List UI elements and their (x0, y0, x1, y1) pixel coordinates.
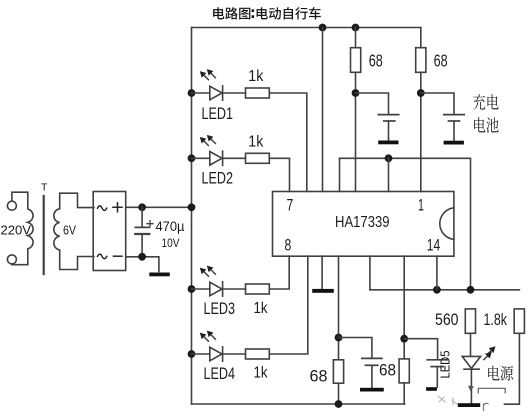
svg-text:LED1: LED1 (202, 105, 234, 123)
node top rail R5 (352, 24, 360, 32)
resistor R9 560 box (465, 309, 475, 333)
node bus LED3 (188, 285, 196, 293)
node mid rail pin2 (385, 154, 393, 162)
resistor R4 1k box (246, 349, 270, 359)
wire top supply rail (192, 27, 421, 29)
wire pin4 (339, 158, 341, 191)
LED3 diode (192, 288, 210, 290)
wire pin12 to ground (321, 256, 323, 289)
battery B plate long (444, 114, 464, 116)
watermark scribble (438, 396, 457, 405)
battery B wire (421, 93, 454, 114)
wire R3 to pin8 (269, 256, 289, 289)
battery A plate short (384, 120, 395, 122)
capacitor C1 470u lead top (141, 207, 143, 226)
wire reference mid rail (340, 158, 471, 289)
transformer core (43, 196, 45, 274)
label 电源 (488, 366, 513, 381)
LED1 diode (192, 92, 210, 94)
LED3 arrows (204, 269, 216, 276)
svg-text:1k: 1k (248, 134, 264, 151)
capacitor C3 wire (404, 339, 437, 359)
node bridge - / cap junction (138, 253, 146, 261)
svg-text:560: 560 (435, 310, 459, 329)
svg-text:1: 1 (418, 197, 424, 215)
resistor R2 1k box (246, 153, 270, 163)
capacitor C2 lead (371, 365, 373, 387)
wire switch-ish mark (478, 388, 505, 393)
ground below U1 (312, 289, 334, 293)
LED4 arrows (204, 334, 216, 341)
node bus LED2 (188, 154, 196, 162)
capacitor C2 plate long (362, 357, 382, 359)
node bus LED4 (188, 350, 196, 358)
svg-text:68: 68 (369, 51, 383, 71)
capacitor C1 plate top (135, 226, 149, 228)
svg-text:1k: 1k (248, 68, 264, 85)
wire bridge + output to bus (126, 206, 192, 208)
svg-text:470µ: 470µ (156, 219, 185, 234)
battery B plate short (449, 120, 460, 122)
battery A wire (356, 93, 389, 114)
svg-text:1k: 1k (254, 365, 269, 382)
resistor R5 68 (355, 28, 357, 48)
wire pin11 down (369, 256, 371, 290)
wire R9 to LED5 (470, 333, 472, 356)
node rail R9 560 (467, 286, 475, 294)
LED2 diode (192, 157, 210, 159)
svg-text:1.8k: 1.8k (484, 310, 508, 329)
capacitor C1 lead bottom (141, 234, 143, 257)
wire pin14 (436, 256, 438, 290)
wire R2 to pin7 (269, 158, 289, 191)
svg-text:7: 7 (287, 197, 294, 215)
node rail pin14 (433, 286, 441, 294)
node R6 battery B (417, 89, 425, 97)
wire pin3 V+ (322, 28, 324, 192)
op-amp U1 HA17339 box (273, 192, 454, 257)
svg-text:220V: 220V (1, 224, 32, 238)
LED5 arrows (484, 350, 492, 360)
ground below bridge (149, 273, 170, 277)
small mark on LED5 wire (468, 386, 474, 392)
svg-text:68: 68 (310, 367, 328, 386)
capacitor C1 plus mark (147, 221, 153, 227)
node bottom rail R7 (335, 400, 343, 408)
wire bridge - output (126, 257, 159, 272)
node top rail pin3 (319, 24, 327, 32)
LED4 diode (192, 353, 210, 355)
ground LED5 (458, 403, 480, 407)
LED5 diode down (462, 356, 480, 368)
resistor R8 68 box (399, 359, 409, 383)
wire output rail (370, 289, 520, 291)
capacitor C2 plate short (365, 364, 377, 366)
battery A plate long (378, 114, 398, 116)
node R5 battery A (352, 89, 360, 97)
wire pin2 (388, 158, 390, 191)
node pin13 cap C3 (400, 335, 408, 343)
svg-text:10V: 10V (162, 236, 180, 250)
svg-text:LED3: LED3 (204, 300, 236, 318)
capacitor C2 wire (339, 338, 372, 358)
ground battery A (378, 141, 398, 145)
battery A lead (388, 121, 390, 140)
resistor R1 1k box (246, 88, 270, 98)
wire R4 to pin9 (269, 256, 308, 354)
capacitor C3 lead (436, 367, 438, 387)
svg-text:68: 68 (434, 51, 448, 71)
svg-text:14: 14 (427, 237, 441, 255)
transformer secondary winding outline (54, 193, 94, 269)
capacitor C3 plate long (427, 359, 447, 361)
ground battery B (444, 141, 464, 145)
LED5 cathode wire (470, 369, 472, 403)
node pin10 cap C2 (335, 334, 343, 342)
transformer T primary winding outline (12, 192, 33, 265)
capacitor C3 plate short (431, 366, 443, 368)
svg-text:LED5: LED5 (438, 351, 453, 379)
ground C2 (360, 388, 384, 392)
U1 notch (440, 208, 454, 240)
resistor R10 1.8k box (514, 309, 524, 333)
svg-text:HA17339: HA17339 (335, 214, 390, 231)
resistor R7 68 box (333, 360, 343, 383)
capacitor C1 plate bottom (135, 233, 149, 235)
title 电路图:电动自行车 (213, 7, 321, 19)
svg-text:8: 8 (285, 237, 292, 255)
wire pin13 down (403, 256, 405, 383)
label 充电电池 (473, 94, 499, 133)
battery B lead (453, 121, 455, 140)
svg-text:68: 68 (379, 361, 396, 380)
node bus / bridge+ (188, 203, 196, 211)
resistor R6 68 (420, 28, 422, 48)
node bridge + / cap junction (138, 203, 146, 211)
resistor R3 1k box (246, 284, 270, 294)
svg-text:LED2: LED2 (202, 170, 234, 188)
svg-text:1k: 1k (254, 300, 269, 317)
wire R10 down (505, 333, 520, 404)
primary terminal circle top (7, 201, 16, 210)
watermark r mark (484, 403, 489, 410)
wire pin10 down (338, 256, 340, 404)
bridge rectifier box (93, 192, 126, 271)
LED2 arrows (204, 139, 216, 146)
wire bottom rail (192, 403, 405, 405)
wire R8 to bottom rail (403, 383, 405, 404)
wire left supply bus (191, 28, 193, 405)
node bus LED1 (188, 89, 196, 97)
wire R1 to pin6 (269, 93, 307, 192)
ground C3 (426, 387, 437, 391)
svg-text:T: T (41, 182, 48, 194)
primary terminal circle bottom (7, 255, 16, 264)
svg-text:6V: 6V (63, 224, 77, 238)
svg-text:LED4: LED4 (204, 365, 236, 383)
LED1 arrows (204, 73, 216, 80)
